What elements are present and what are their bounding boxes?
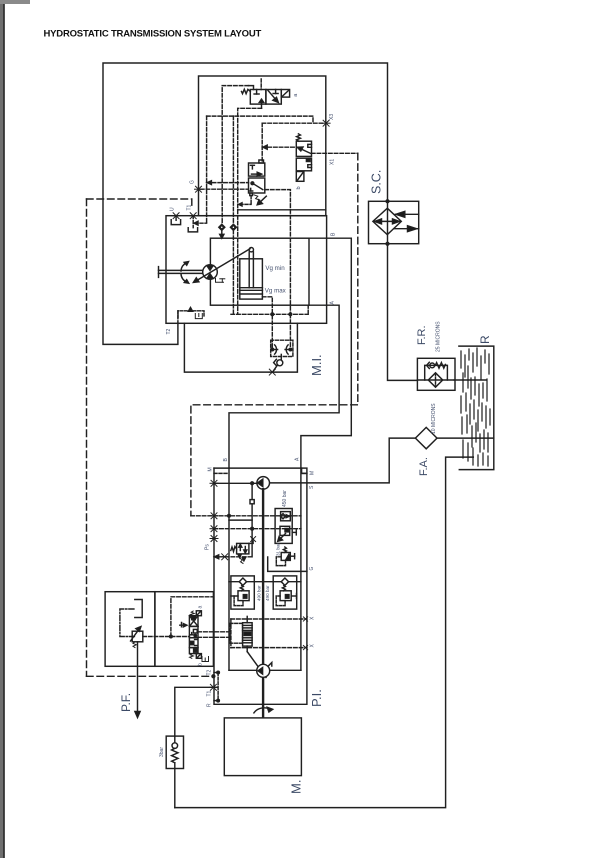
motor case drain symbol: [216, 279, 225, 283]
gearbox housing below motor: [184, 323, 297, 372]
relief 31bar box: [281, 553, 290, 561]
svg-text:Vg min: Vg min: [265, 265, 285, 272]
wire T2 port dashed chain: [214, 673, 218, 701]
brake valve box 4 mark: [194, 649, 198, 652]
wire valve V1 top port dashed: [260, 79, 262, 90]
wire brake valve to servo dashed 1: [198, 631, 230, 633]
DA valve X mark: [251, 537, 256, 542]
wire M gauge dashed: [214, 472, 229, 474]
wire lower corridor dashed: [231, 313, 308, 315]
charge pump arrow: [258, 668, 263, 675]
valve block inner bottom edge: [238, 209, 326, 211]
node control tap: [251, 482, 254, 485]
brake feed block P.F. box: [105, 592, 155, 667]
svg-text:G: G: [190, 180, 196, 184]
wire control line down: [251, 483, 253, 557]
wire corridor to T1 tank arrow: [194, 221, 206, 225]
wire return line into tank: [175, 457, 474, 807]
490bar right square: [285, 595, 289, 599]
port B wire motor to pump: [301, 238, 351, 468]
brake valve box 3: [189, 638, 198, 648]
svg-text:M: M: [208, 467, 214, 471]
wire corridor 2 dashed: [214, 528, 301, 530]
motor unit sub-rect bottom extension wire A: [309, 304, 327, 306]
P.F. valve spring: [133, 642, 136, 648]
V2 top box arrow: [252, 172, 262, 176]
relief 490bar left outer box: [231, 576, 254, 609]
490bar right check diamond: [281, 578, 288, 585]
servo inner dashed box: [230, 623, 243, 643]
DA control valve box: [237, 543, 249, 554]
tank symbol T2 cluster: [195, 314, 202, 319]
490bar left square: [243, 595, 247, 599]
F.R. through line: [417, 379, 454, 381]
brake valve box 4: [189, 648, 198, 654]
pilot valve b box1: [296, 141, 311, 156]
pilot valve b spring: [297, 134, 301, 141]
svg-text:b: b: [198, 663, 204, 666]
wire G line: [268, 557, 307, 571]
port x upper mark: [303, 617, 307, 621]
wire G star to corridor: [201, 188, 249, 190]
490bar left port arm: [231, 595, 235, 597]
shaft rotation arc bottom: [254, 707, 273, 713]
motor shaft: [159, 267, 203, 278]
wire D1 to motor housing: [221, 230, 223, 235]
node brake pilot junction: [170, 635, 173, 638]
490bar right port arm: [291, 594, 296, 599]
pump inner body left rail: [228, 468, 230, 670]
svg-text:10 MICRONS: 10 MICRONS: [431, 403, 437, 434]
wire servo corridor X upper dashed: [231, 618, 307, 620]
450bar spring arrow: [278, 534, 286, 542]
brake valve solenoid box a: [196, 611, 201, 616]
flushing valve V1 right box arrow: [268, 90, 278, 103]
svg-text:F.R.: F.R.: [416, 325, 428, 345]
wire T1 to tank dashed: [192, 216, 194, 228]
svg-text:31 bar: 31 bar: [276, 543, 281, 556]
490bar right spring: [282, 585, 285, 590]
wire drain dashed to left: [238, 108, 262, 314]
orifice check diamond D2: [230, 224, 236, 230]
svg-text:450 bar: 450 bar: [282, 490, 288, 507]
F.R. bypass check seat: [427, 362, 430, 368]
brake valve box 2: [189, 626, 198, 637]
wire V2 drain down: [250, 196, 252, 205]
V2 spring diagonal: [254, 195, 260, 203]
3bar through line: [174, 736, 176, 743]
wire X1 pilot route dashed: [191, 153, 358, 516]
F.R. bypass spring: [435, 363, 445, 369]
DA valve internals: [239, 544, 247, 553]
wire P.F. valve to brake valve dashed: [143, 636, 190, 638]
arrow P.F. outlet: [135, 712, 140, 718]
brake valve dashed box: [171, 597, 214, 637]
wire actuator to shuttle dashed: [262, 297, 272, 347]
node corridor junction 1: [271, 313, 274, 316]
port T1 star (pump): [209, 684, 217, 690]
reservoir R outline: [459, 346, 494, 470]
arrow into motor housing: [220, 234, 224, 238]
svg-text:Vg max: Vg max: [265, 288, 287, 295]
wire brake valve to servo dashed 2: [198, 636, 230, 638]
node boundary pump corner: [212, 675, 215, 678]
F.R. filter diamond: [428, 373, 442, 387]
brake valve solenoid diagonal a: [197, 611, 201, 615]
svg-text:490 bar: 490 bar: [265, 585, 270, 601]
P.F. feedback dash-dot: [120, 609, 135, 637]
svg-text:T1: T1: [207, 690, 213, 696]
svg-text:R: R: [207, 703, 213, 707]
pilot valve b box1 arrow: [297, 147, 310, 153]
V2 spring arrow: [257, 196, 266, 205]
S.C. inner double arrow: [374, 219, 400, 224]
wire X1 corridor into pump dashed: [191, 515, 301, 517]
brake valve box 1: [189, 616, 198, 627]
P.F. reducing valve box: [132, 631, 143, 642]
brake valve solenoid box b: [196, 654, 201, 659]
wire pilot dashed to diamond line: [222, 86, 248, 225]
pressure regulator V2 top box: [249, 163, 265, 176]
wire X1 dashed: [312, 152, 358, 154]
svg-text:T2: T2: [166, 328, 172, 334]
wire suction line pump S to F.A. to tank: [270, 438, 416, 483]
wire F.A. to tank bottom: [437, 437, 494, 439]
svg-text:R: R: [478, 335, 492, 344]
wire pilot to valve b with arrow: [262, 145, 296, 149]
svg-text:F.A.: F.A.: [418, 457, 430, 476]
S.C. through line: [387, 201, 389, 243]
wire T2 drain solid: [177, 311, 179, 324]
wire servo corridor X lower dashed: [231, 647, 307, 649]
tank symbol brake area: [202, 657, 209, 662]
tank symbol under T1: [188, 228, 197, 232]
V2 bottom box blocked port: [249, 188, 253, 191]
490bar left spring: [240, 585, 243, 590]
port star P1: [210, 513, 218, 519]
tank symbol under U: [171, 220, 180, 225]
variable displacement arrow: [193, 249, 250, 283]
490bar left check diamond: [239, 578, 246, 585]
relief 450bar valve box: [280, 526, 290, 535]
3bar ball: [172, 743, 178, 749]
DA valve dashed bracket: [249, 539, 253, 543]
T2 drain arrow: [188, 308, 192, 312]
brake valve box 2 marks: [190, 629, 197, 636]
svg-text:M.: M.: [289, 780, 304, 794]
flushing valve V1 pilot box: [281, 90, 289, 98]
svg-text:S.C.: S.C.: [370, 170, 384, 194]
brake valve box 3 marks: [190, 640, 197, 646]
motor triangle top: [207, 266, 213, 271]
node R port: [217, 699, 220, 702]
wire corridor stub to housing: [307, 305, 309, 314]
node corridor junction 2: [289, 313, 292, 316]
pilot valve b box2 blocked: [306, 159, 311, 168]
node S.C. top junction: [386, 200, 389, 203]
wire U to tank: [175, 216, 177, 221]
node S.C. bottom junction: [386, 242, 389, 245]
machine boundary dashed left: [86, 199, 88, 676]
port T1 star: [189, 213, 197, 219]
pilot valve b box1 bracket: [308, 144, 312, 147]
svg-text:X3: X3: [329, 114, 335, 120]
wire diamond D2 line: [232, 116, 234, 224]
F.R. filter element dashed: [435, 374, 437, 387]
wire AB cross line: [229, 581, 301, 583]
svg-text:P.F.: P.F.: [119, 693, 133, 712]
pilot valve b pilot diagonal: [297, 173, 303, 181]
port X3: [322, 120, 330, 126]
S.C. inlet arrow: [396, 211, 419, 217]
suction filter F.A. diamond: [415, 427, 437, 448]
wire shuttle feed right dashed: [289, 314, 291, 347]
V2 top box blocked port: [250, 165, 254, 169]
Vg actuator rod circle: [249, 248, 253, 252]
31bar dashed loop: [276, 557, 285, 566]
shuttle check ball: [274, 354, 283, 366]
machine boundary dashed top: [87, 199, 192, 207]
Vg actuator rod: [249, 252, 253, 288]
brake valve box 1 X: [189, 616, 198, 627]
charge pump circle: [257, 664, 270, 677]
svg-text:P.I.: P.I.: [309, 689, 324, 707]
pump inner body bottom edge: [229, 669, 301, 671]
engine box M.: [224, 718, 301, 776]
wire X3 branch down: [261, 123, 263, 161]
main pump circle: [257, 477, 270, 490]
wire P.F. outlet: [137, 642, 139, 714]
return filter F.R. box: [417, 358, 455, 390]
3bar outlet line: [174, 763, 176, 808]
wire M to pump circle: [214, 482, 257, 484]
page scan edge strip: [0, 0, 3, 858]
DA valve spring: [231, 547, 237, 552]
490bar left valve box: [238, 591, 249, 601]
heat exchanger S.C. box: [369, 201, 419, 243]
tank fluid hatching: [461, 348, 490, 466]
450bar check symbol: [280, 514, 289, 519]
node boundary to pump: [217, 671, 220, 674]
pump casing top edge: [214, 467, 302, 469]
page scan edge line: [3, 0, 5, 858]
450bar valve square: [285, 529, 288, 532]
pump block P.I. outer casing: [214, 468, 307, 704]
3bar spring: [172, 748, 178, 762]
port star P3: [210, 536, 218, 542]
valve block (motor control) outline: [199, 76, 326, 216]
swashplate diagonal: [247, 652, 266, 678]
servo dashed box left edge: [230, 619, 232, 648]
wire F.R. into tank: [454, 379, 486, 381]
svg-text:a: a: [198, 606, 204, 609]
servo piston striped block: [243, 623, 253, 646]
pump M port box: [302, 468, 307, 473]
relief 490bar right outer box: [273, 576, 297, 609]
P.F. pilot bracket: [135, 600, 142, 618]
svg-text:T2: T2: [207, 669, 213, 675]
port U star: [172, 213, 180, 219]
relief 450bar outer box: [275, 509, 292, 544]
svg-text:G: G: [309, 567, 315, 571]
flushing valve V1 box left: [250, 90, 266, 105]
flushing valve V1 spring: [242, 89, 251, 93]
pilot valve b box2: [296, 158, 311, 171]
brake valve pilot bracket left: [180, 623, 187, 627]
brake valve solenoid diagonal b: [197, 654, 201, 658]
brake valve enclosure box: [155, 592, 214, 667]
svg-text:M.I.: M.I.: [309, 354, 324, 376]
svg-text:U: U: [170, 207, 176, 211]
relief 450bar check box: [281, 512, 291, 521]
450bar port arm: [292, 530, 296, 535]
490bar right dashed loop: [276, 596, 285, 606]
pump drive shaft bold: [262, 489, 264, 716]
wire D2 down: [232, 230, 234, 314]
wire G port corridor vertical: [206, 116, 208, 223]
orifice check diamond D1: [219, 224, 225, 230]
servo rod up: [246, 616, 248, 622]
Vg actuator piston lines: [240, 288, 263, 294]
shaft rotation arcs: [181, 262, 189, 284]
servo rod down: [246, 646, 248, 652]
31bar port arm: [290, 554, 294, 559]
F.R. bypass loop: [425, 365, 448, 380]
V2 bottom seat square: [250, 193, 253, 196]
DA valve lower spring arrows: [238, 555, 245, 564]
wire T1 to 3bar valve: [175, 687, 214, 736]
svg-text:HYDROSTATIC TRANSMISSION SYSTE: HYDROSTATIC TRANSMISSION SYSTEM LAYOUT: [44, 29, 262, 40]
motor block M.I. outline: [166, 216, 327, 324]
machine boundary dashed bottom: [87, 675, 214, 677]
shuttle dashed box: [271, 340, 293, 356]
svg-text:Ps: Ps: [205, 544, 211, 550]
wire flush/case-drain loop (T2 to top to S.C.): [103, 63, 388, 344]
wire G entry to V2 arrow: [207, 181, 249, 185]
Vg actuator cylinder: [240, 259, 263, 299]
control orifice square: [250, 500, 254, 504]
svg-text:490 bar: 490 bar: [257, 585, 262, 601]
flushing valve V1 box right: [266, 90, 281, 105]
S.C. diamond: [373, 208, 401, 234]
pilot valve b pilot box: [296, 172, 304, 182]
main pump arrow: [258, 479, 263, 486]
S.C. outlet arrow: [395, 226, 419, 232]
wire B port stub at motor: [309, 237, 327, 239]
page scan corner smudge: [0, 0, 30, 4]
port star Ps line: [221, 554, 229, 560]
wire V2 right port dashed: [265, 190, 291, 315]
svg-text:M: M: [310, 471, 316, 475]
F.R. bypass check ball: [430, 363, 435, 368]
wire drain stub arrow: [239, 203, 251, 206]
wire S.C. to return filter: [388, 244, 418, 381]
490bar left dashed loop: [234, 596, 243, 606]
svg-text:25 MICRONS: 25 MICRONS: [436, 321, 442, 352]
T2 drain cluster dashed: [178, 311, 204, 318]
wire X3 branch to pilot valves: [262, 122, 313, 124]
port X (gearbox drain): [268, 369, 276, 375]
pump inner body right rail: [300, 468, 302, 670]
shuttle valve symbol: [271, 345, 292, 354]
port star P2: [210, 526, 218, 532]
brake valve spring b: [190, 654, 194, 659]
P.F. valve arrow: [131, 627, 141, 641]
port G star: [195, 186, 203, 192]
motor triangle bottom: [207, 274, 213, 279]
port M star (pump left): [210, 480, 218, 486]
motor circle: [203, 265, 218, 280]
port A wire motor to pump: [229, 305, 339, 468]
motor unit housing: [210, 238, 309, 305]
charge pump tick: [269, 663, 272, 667]
svg-text:b: b: [296, 186, 302, 189]
wire Ps dashed with X: [214, 555, 252, 559]
flushing valve pilot bracket: [249, 86, 254, 90]
pressure regulator V2 cap: [259, 160, 264, 163]
31bar arrow: [286, 554, 290, 560]
31bar spring: [283, 547, 286, 553]
wire flushing valve tank port: [261, 104, 263, 108]
brake valve spring a: [190, 611, 194, 616]
flushing valve V1 pilot diagonal: [283, 91, 289, 96]
490bar right valve box: [280, 591, 291, 601]
pressure regulator V2 bottom box: [249, 178, 265, 193]
V2 bottom box diagonal: [251, 182, 263, 190]
flushing valve V1 left box blocked port bottom: [259, 99, 263, 104]
check valve 3bar box: [166, 736, 183, 768]
wire check to port X: [273, 365, 277, 371]
svg-text:3bar: 3bar: [159, 747, 165, 757]
wire X3 corridor dashed: [207, 116, 323, 123]
port x lower mark: [303, 646, 307, 650]
svg-text:X1: X1: [330, 159, 336, 165]
wire B rail to control solid: [229, 519, 252, 521]
flushing valve V1 left box blocked port top: [254, 90, 259, 95]
